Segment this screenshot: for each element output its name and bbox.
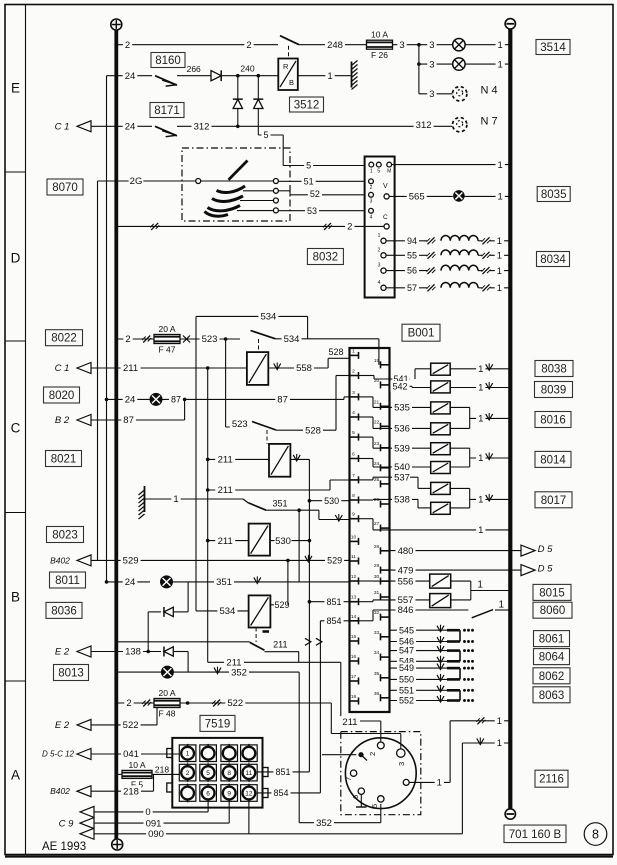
svg-text:C: C	[11, 421, 21, 436]
svg-text:090: 090	[148, 829, 164, 840]
svg-text:1: 1	[478, 495, 483, 506]
svg-text:041: 041	[123, 749, 139, 760]
svg-text:3: 3	[370, 199, 373, 205]
svg-text:B: B	[11, 590, 20, 605]
svg-text:1: 1	[327, 71, 332, 82]
svg-text:2: 2	[246, 40, 251, 51]
svg-text:55: 55	[407, 250, 417, 260]
svg-text:8035: 8035	[541, 189, 567, 201]
svg-text:56: 56	[407, 266, 417, 276]
svg-text:1: 1	[370, 169, 373, 175]
svg-text:8060: 8060	[540, 605, 566, 617]
svg-text:701 160 B: 701 160 B	[509, 829, 562, 841]
svg-text:534: 534	[260, 312, 276, 323]
svg-text:352: 352	[231, 667, 247, 678]
svg-text:11: 11	[246, 770, 253, 777]
svg-text:D 5: D 5	[538, 544, 554, 555]
svg-text:091: 091	[146, 818, 162, 829]
svg-text:851: 851	[326, 597, 341, 607]
svg-text:32: 32	[374, 610, 380, 616]
svg-text:94: 94	[407, 236, 417, 246]
svg-text:13: 13	[351, 595, 357, 601]
svg-text:240: 240	[240, 63, 254, 73]
svg-text:8062: 8062	[539, 671, 565, 683]
svg-text:535: 535	[394, 403, 410, 414]
svg-text:8160: 8160	[155, 55, 181, 67]
svg-text:211: 211	[342, 717, 357, 728]
svg-text:31: 31	[374, 590, 380, 596]
svg-text:211: 211	[123, 363, 138, 374]
svg-text:2: 2	[352, 369, 355, 375]
svg-text:3: 3	[429, 40, 434, 51]
svg-text:20 A: 20 A	[158, 688, 175, 698]
svg-text:211: 211	[273, 640, 287, 650]
svg-text:1: 1	[497, 236, 502, 247]
svg-text:2: 2	[368, 752, 377, 756]
svg-text:87: 87	[123, 415, 134, 426]
svg-text:52: 52	[310, 189, 320, 199]
svg-text:M: M	[387, 169, 391, 175]
svg-text:N 7: N 7	[480, 116, 497, 128]
svg-text:24: 24	[125, 71, 136, 82]
svg-text:5: 5	[352, 430, 355, 436]
svg-text:29: 29	[374, 563, 380, 569]
svg-text:3: 3	[429, 59, 434, 70]
svg-text:846: 846	[398, 605, 414, 616]
svg-text:16: 16	[351, 654, 357, 660]
svg-text:1: 1	[437, 778, 442, 789]
svg-text:23: 23	[374, 441, 380, 447]
svg-text:8014: 8014	[540, 454, 566, 466]
svg-text:3512: 3512	[294, 100, 320, 112]
svg-text:8032: 8032	[313, 252, 339, 264]
svg-text:2G: 2G	[130, 176, 143, 187]
svg-text:1: 1	[352, 348, 355, 354]
svg-text:7519: 7519	[205, 718, 231, 730]
svg-text:1: 1	[498, 160, 503, 171]
svg-text:2: 2	[125, 40, 130, 51]
svg-text:545: 545	[399, 625, 414, 635]
svg-text:854: 854	[273, 788, 288, 798]
svg-text:2: 2	[347, 222, 352, 233]
svg-text:0: 0	[145, 807, 150, 818]
svg-text:8020: 8020	[49, 390, 75, 402]
svg-text:8171: 8171	[154, 105, 180, 117]
svg-text:8061: 8061	[539, 634, 565, 646]
svg-text:33: 33	[374, 630, 380, 636]
svg-text:F 47: F 47	[158, 344, 175, 354]
svg-text:N 4: N 4	[480, 85, 497, 97]
svg-text:552: 552	[399, 696, 414, 706]
svg-text:1: 1	[499, 600, 505, 611]
svg-text:6: 6	[352, 452, 355, 458]
svg-text:8017: 8017	[541, 495, 567, 507]
svg-text:8013: 8013	[58, 668, 84, 680]
svg-text:24: 24	[125, 395, 136, 406]
svg-text:9: 9	[352, 512, 355, 518]
svg-text:480: 480	[398, 546, 414, 557]
svg-text:8034: 8034	[540, 254, 566, 266]
svg-text:8021: 8021	[51, 454, 77, 466]
svg-text:D 5: D 5	[538, 564, 554, 575]
svg-text:A: A	[11, 768, 20, 783]
svg-text:E: E	[11, 81, 20, 96]
svg-text:539: 539	[394, 443, 410, 454]
svg-text:34: 34	[374, 650, 380, 656]
svg-text:18: 18	[351, 694, 357, 700]
svg-text:211: 211	[218, 485, 233, 496]
svg-text:1: 1	[498, 40, 503, 51]
svg-text:3514: 3514	[540, 42, 566, 54]
svg-text:B 2: B 2	[55, 415, 70, 426]
svg-text:3: 3	[397, 762, 406, 766]
svg-text:1: 1	[498, 192, 503, 203]
svg-text:12: 12	[351, 574, 357, 580]
svg-text:6: 6	[206, 790, 210, 797]
svg-text:1: 1	[478, 453, 483, 464]
svg-text:24: 24	[374, 461, 380, 467]
svg-text:5: 5	[306, 161, 311, 171]
svg-text:7: 7	[352, 473, 355, 479]
svg-text:522: 522	[227, 698, 243, 709]
svg-text:1: 1	[498, 59, 503, 70]
svg-text:12: 12	[245, 790, 253, 797]
svg-text:542: 542	[392, 381, 407, 391]
svg-text:851: 851	[275, 767, 290, 777]
svg-text:2: 2	[370, 185, 373, 191]
svg-text:R: R	[283, 62, 289, 71]
svg-text:248: 248	[327, 40, 343, 51]
svg-text:211: 211	[218, 455, 233, 466]
svg-text:C: C	[383, 214, 388, 221]
svg-text:8064: 8064	[539, 652, 565, 664]
svg-text:218: 218	[123, 786, 139, 797]
svg-text:17: 17	[351, 674, 357, 680]
svg-text:558: 558	[296, 363, 312, 374]
svg-text:C 1: C 1	[55, 122, 70, 133]
svg-text:B402: B402	[50, 786, 70, 796]
svg-text:24: 24	[125, 122, 136, 133]
svg-text:C 1: C 1	[55, 363, 70, 374]
svg-text:24: 24	[125, 577, 136, 588]
svg-text:1: 1	[478, 364, 483, 375]
svg-text:35: 35	[374, 671, 380, 677]
svg-text:1: 1	[478, 525, 483, 536]
svg-text:523: 523	[202, 334, 218, 345]
svg-text:14: 14	[351, 614, 357, 620]
svg-text:538: 538	[394, 495, 410, 506]
svg-text:8: 8	[592, 827, 599, 841]
svg-text:4: 4	[378, 280, 381, 286]
svg-text:1: 1	[173, 494, 178, 505]
svg-text:8038: 8038	[541, 364, 567, 376]
svg-text:8022: 8022	[51, 333, 77, 345]
svg-text:20 A: 20 A	[158, 324, 175, 334]
svg-text:19: 19	[374, 358, 380, 364]
svg-text:8: 8	[227, 770, 231, 777]
svg-text:5: 5	[263, 130, 268, 140]
svg-text:529: 529	[327, 555, 342, 565]
svg-text:4: 4	[370, 215, 373, 221]
svg-text:3: 3	[399, 40, 404, 51]
svg-text:28: 28	[374, 544, 380, 550]
svg-text:523: 523	[232, 419, 248, 430]
svg-text:87: 87	[277, 395, 288, 406]
svg-text:5: 5	[370, 804, 379, 808]
svg-text:1: 1	[497, 716, 502, 727]
svg-text:218: 218	[155, 764, 169, 774]
svg-text:138: 138	[125, 647, 141, 658]
svg-text:2: 2	[186, 770, 190, 777]
svg-text:352: 352	[316, 818, 332, 829]
svg-text:3: 3	[352, 390, 355, 396]
svg-text:51: 51	[304, 176, 314, 186]
svg-text:E 2: E 2	[55, 720, 70, 731]
svg-text:522: 522	[123, 720, 139, 731]
svg-text:556: 556	[398, 576, 414, 587]
svg-text:351: 351	[272, 498, 287, 508]
svg-text:8015: 8015	[539, 587, 565, 599]
svg-text:211: 211	[226, 658, 241, 669]
svg-text:E 2: E 2	[55, 647, 70, 658]
svg-text:565: 565	[409, 192, 425, 203]
svg-text:8: 8	[352, 493, 355, 499]
svg-text:1: 1	[478, 414, 483, 425]
svg-text:V: V	[383, 183, 388, 190]
svg-text:537: 537	[394, 472, 410, 483]
svg-text:529: 529	[123, 556, 139, 567]
svg-text:3: 3	[378, 263, 381, 269]
svg-text:11: 11	[351, 554, 356, 560]
svg-text:536: 536	[394, 424, 410, 435]
svg-text:1: 1	[497, 266, 502, 277]
svg-text:534: 534	[284, 334, 300, 345]
svg-text:6: 6	[351, 795, 360, 799]
svg-text:479: 479	[398, 565, 414, 576]
svg-text:30: 30	[374, 574, 380, 580]
svg-text:F 26: F 26	[371, 50, 388, 60]
svg-text:547: 547	[399, 646, 414, 656]
svg-text:10 A: 10 A	[128, 760, 145, 770]
svg-text:B: B	[289, 78, 294, 87]
svg-text:530: 530	[324, 496, 339, 506]
svg-text:B001: B001	[408, 328, 435, 340]
svg-text:22: 22	[374, 419, 380, 425]
svg-text:9: 9	[227, 790, 231, 797]
svg-text:550: 550	[399, 674, 414, 684]
svg-text:1: 1	[478, 383, 483, 394]
svg-text:266: 266	[187, 64, 201, 74]
svg-text:26: 26	[374, 497, 380, 503]
svg-text:2: 2	[378, 247, 381, 253]
svg-text:15: 15	[351, 634, 357, 640]
svg-text:1: 1	[497, 738, 502, 749]
svg-text:534: 534	[219, 606, 235, 617]
svg-text:528: 528	[328, 347, 343, 357]
svg-text:2: 2	[126, 698, 131, 709]
svg-text:4: 4	[352, 410, 355, 416]
svg-text:8036: 8036	[51, 605, 77, 617]
svg-text:5: 5	[377, 169, 380, 175]
svg-text:529: 529	[274, 600, 289, 610]
svg-text:1: 1	[477, 580, 483, 591]
svg-text:10 A: 10 A	[371, 30, 388, 40]
svg-text:87: 87	[171, 394, 181, 404]
svg-text:B402: B402	[50, 555, 70, 565]
svg-text:530: 530	[275, 536, 291, 547]
svg-text:1: 1	[497, 251, 502, 262]
svg-text:D: D	[11, 251, 21, 266]
svg-text:C 9: C 9	[59, 818, 75, 829]
svg-text:549: 549	[399, 663, 414, 673]
svg-text:8070: 8070	[52, 182, 78, 194]
svg-text:8039: 8039	[541, 385, 567, 397]
svg-text:8023: 8023	[52, 530, 78, 542]
svg-text:551: 551	[399, 685, 414, 695]
svg-text:211: 211	[218, 536, 233, 547]
svg-text:8016: 8016	[540, 415, 566, 427]
svg-text:312: 312	[416, 120, 432, 131]
svg-text:1: 1	[378, 233, 381, 239]
svg-text:57: 57	[407, 283, 417, 293]
svg-text:351: 351	[216, 577, 232, 588]
svg-text:2116: 2116	[539, 774, 564, 786]
svg-text:AE 1993: AE 1993	[42, 841, 86, 853]
svg-text:D 5-C 12: D 5-C 12	[42, 750, 75, 759]
svg-text:312: 312	[194, 122, 210, 133]
svg-text:1: 1	[497, 283, 502, 294]
svg-text:2: 2	[125, 334, 130, 345]
svg-text:8063: 8063	[539, 690, 565, 702]
svg-text:5: 5	[206, 770, 210, 777]
svg-text:53: 53	[307, 206, 317, 216]
svg-text:21: 21	[374, 399, 380, 405]
svg-text:8011: 8011	[55, 575, 80, 587]
svg-text:10: 10	[351, 534, 357, 540]
svg-text:528: 528	[305, 425, 321, 436]
svg-text:7: 7	[344, 777, 353, 781]
svg-text:1: 1	[186, 751, 190, 758]
svg-text:25: 25	[374, 477, 380, 483]
svg-text:F 48: F 48	[158, 708, 175, 718]
svg-text:854: 854	[326, 616, 341, 626]
svg-text:36: 36	[374, 691, 380, 697]
svg-text:3: 3	[429, 89, 434, 100]
svg-text:27: 27	[374, 521, 380, 527]
